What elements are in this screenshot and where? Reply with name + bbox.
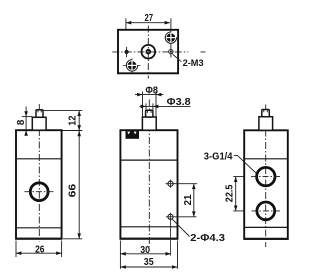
svg-text:3-G1/4: 3-G1/4	[204, 152, 233, 163]
port circle (side)	[30, 183, 48, 201]
svg-text:2-Φ4.3: 2-Φ4.3	[190, 233, 225, 244]
dim 66 extension bottom	[63, 238, 82, 240]
vertical centerline (right)	[265, 105, 267, 248]
svg-text:2-M3: 2-M3	[183, 58, 204, 69]
plunger base block (front)	[142, 117, 156, 130]
leader 2-M3	[173, 54, 182, 61]
dim phi8 line	[135, 94, 164, 96]
svg-text:Φ3.8: Φ3.8	[167, 97, 191, 108]
plunger base block	[32, 117, 46, 130]
nub cap mark (front)	[147, 110, 151, 113]
dim 21 extension lines	[166, 184, 198, 217]
node: left pilot dot	[125, 50, 129, 54]
svg-text:66: 66	[68, 183, 79, 197]
svg-text:22.5: 22.5	[224, 184, 235, 202]
svg-text:35: 35	[144, 257, 154, 268]
svg-text:26: 26	[35, 244, 45, 255]
dim 12 extension lines	[44, 111, 83, 131]
dim 30 line	[120, 253, 170, 255]
dim phi3.8 extension lines	[146, 103, 153, 110]
port circle top (right)	[257, 167, 275, 185]
svg-text:21: 21	[183, 194, 194, 205]
svg-text:8: 8	[16, 119, 27, 125]
dim phi8 extension lines	[143, 92, 157, 117]
vertical centerline (front)	[148, 100, 150, 247]
dim 22.5 extension lines	[233, 177, 243, 211]
vertical centerline	[38, 104, 40, 242]
nub cap mark (right)	[264, 110, 268, 113]
nameplate label	[126, 131, 140, 139]
horizontal centerline of port	[24, 191, 54, 193]
centerline vertical (plan)	[147, 26, 149, 79]
section line (right)	[244, 158, 288, 160]
port circle bottom (right)	[257, 202, 275, 220]
body outline (left view)	[16, 130, 62, 239]
base plate line	[120, 226, 177, 228]
body outline (right view)	[244, 130, 288, 239]
dim 35 line	[120, 266, 177, 268]
solenoid cap outer circle	[142, 45, 156, 59]
mounting hole top (front)	[168, 181, 173, 186]
solenoid cap inner circle	[146, 49, 152, 55]
plunger nub	[36, 110, 43, 118]
dim 22.5 line	[235, 177, 237, 211]
plunger nub (front)	[146, 110, 153, 117]
dim 12 line	[78, 111, 80, 131]
svg-text:27: 27	[145, 13, 154, 24]
svg-text:Φ8: Φ8	[145, 85, 158, 96]
leader 3-G1/4	[234, 156, 256, 174]
dim 8 extension line	[22, 116, 33, 118]
body outline (plan)	[118, 30, 178, 74]
bottom edge thick	[16, 238, 62, 240]
extension line left (dim 27)	[125, 18, 127, 30]
dim 8 line	[25, 107, 27, 134]
nub cap mark	[38, 110, 41, 113]
dim 26 line	[16, 252, 62, 254]
dim 26 extension lines	[16, 241, 62, 258]
bottom edge thick	[120, 238, 177, 240]
extension line right (dim 27)	[170, 18, 172, 57]
dim 66 line	[78, 131, 80, 239]
plunger nub (right)	[262, 110, 270, 117]
plunger base block (right)	[259, 117, 273, 131]
svg-text:30: 30	[140, 245, 150, 256]
bottom edge thick (right)	[244, 238, 288, 240]
svg-text:12: 12	[68, 115, 79, 126]
mounting hole bottom (front)	[168, 214, 173, 219]
screw hole M3 bottom-left	[123, 59, 141, 73]
dim 21 line	[193, 184, 195, 217]
screw hole M3 top-right	[165, 31, 178, 44]
leader 2-phi4.3	[172, 219, 189, 236]
base plate line	[16, 227, 62, 229]
centerline horizontal (plan)	[112, 51, 205, 53]
dim phi3.8 line	[140, 105, 191, 107]
body outline (front view)	[120, 130, 177, 239]
dim 35 extension lines	[120, 241, 177, 269]
dimension 27 line	[126, 22, 170, 24]
section line upper	[16, 158, 62, 160]
section line	[120, 159, 177, 161]
right small hole	[169, 49, 173, 53]
base plate line (right)	[244, 226, 288, 228]
